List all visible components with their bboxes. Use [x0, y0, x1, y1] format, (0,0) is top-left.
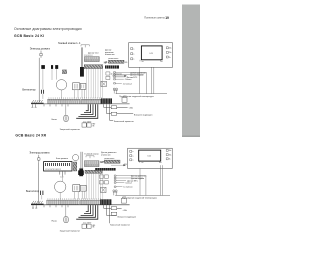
sensor pin column	[114, 175, 116, 187]
svg-text:Сигнал: Сигнал	[125, 183, 131, 185]
svg-text:Блок розжига: Блок розжига	[56, 158, 69, 160]
connector T P	[78, 170, 84, 175]
pin ticks below strip	[31, 104, 68, 107]
svg-text:7a: 7a	[169, 159, 171, 161]
small hatched box	[62, 70, 66, 74]
terminal sockets on strip	[47, 200, 79, 204]
hatched edge connector strip	[108, 60, 124, 63]
svg-text:24a: 24a	[169, 150, 172, 152]
svg-text:GCB Basic 24 Kl: GCB Basic 24 Kl	[14, 34, 44, 38]
svg-text:Электрод розжига: Электрод розжига	[30, 47, 51, 50]
box bottom stubs	[60, 172, 65, 176]
mains terminal N L	[82, 224, 86, 228]
bracket under gas valve label	[86, 156, 94, 158]
wires components to strip	[43, 69, 85, 99]
mains terminal N L	[82, 123, 86, 127]
PCB right pins	[166, 149, 168, 159]
connector b	[41, 65, 45, 69]
dark connector row	[85, 170, 102, 173]
display bottom pin marks	[140, 60, 163, 62]
display bottom pin marks	[140, 161, 162, 163]
svg-text:Сеть 230 В~: Сеть 230 В~	[83, 223, 92, 225]
fan motor M2	[73, 155, 79, 161]
transformer T1	[73, 83, 80, 90]
strip end connector	[121, 198, 126, 203]
svg-text:Пульт/датчик наружной температ: Пульт/датчик наружной температуры	[122, 197, 157, 200]
svg-text:разъем платы: разъем платы	[104, 158, 114, 160]
ignition electrode symbol	[38, 155, 40, 162]
wire row: room thermostat	[109, 205, 111, 223]
dark connector row	[84, 65, 103, 69]
svg-text:НР: НР	[104, 61, 108, 64]
svg-text:Комнатный термостат: Комнатный термостат	[114, 120, 134, 123]
svg-text:19: 19	[165, 16, 169, 20]
harness staircase	[76, 104, 98, 118]
svg-text:Внешняя индикация: Внешняя индикация	[118, 217, 136, 219]
wire row: room thermostat	[110, 104, 114, 120]
PCB left pins	[130, 150, 132, 160]
display module	[139, 150, 161, 161]
svg-text:1x Сигнал: 1x Сигнал	[123, 187, 132, 189]
svg-text:Комнатный термостат: Комнатный термостат	[110, 223, 130, 226]
ground hatch left of strip	[31, 203, 44, 205]
svg-text:отопления: отопления	[101, 154, 110, 156]
pump body	[65, 104, 67, 115]
boxed X connector	[101, 187, 106, 192]
terminal box row X2	[84, 57, 99, 62]
gas valve cable (double line)	[81, 47, 82, 67]
fuse pair left	[106, 72, 110, 80]
svg-text:ПВ: ПВ	[92, 227, 94, 229]
arrow to board	[111, 164, 126, 166]
svg-text:Внешняя индикация: Внешняя индикация	[134, 114, 152, 116]
svg-text:1 2 3: 1 2 3	[60, 177, 63, 179]
strip end connector	[122, 97, 127, 102]
svg-text:Основные диаграммы электропров: Основные диаграммы электропроводки	[14, 27, 82, 31]
main terminal strip	[31, 103, 130, 105]
dark connector block	[105, 65, 119, 68]
pump motor M3	[55, 181, 66, 192]
wire: electrode down to terminal strip	[38, 58, 40, 102]
svg-text:X20: X20	[125, 62, 128, 64]
arrow to board	[112, 75, 127, 77]
gas valve plug	[79, 168, 83, 176]
pin stubs above sockets	[48, 198, 101, 200]
svg-text:7a: 7a	[169, 57, 171, 59]
sensor wires	[115, 72, 146, 83]
svg-text:1x Сигнал: 1x Сигнал	[123, 83, 132, 85]
svg-text:Вентилятор: Вентилятор	[26, 190, 40, 193]
svg-text:Защитный термостат: Защитный термостат	[60, 229, 81, 232]
svg-text:НВО: НВО	[92, 124, 95, 126]
wire pump to strip	[52, 69, 62, 99]
svg-text:23a: 23a	[169, 52, 172, 54]
harness staircase	[76, 205, 98, 219]
wires from PCB down	[140, 68, 154, 94]
wires from PCB down	[140, 165, 162, 195]
terminal box row	[84, 161, 99, 167]
bus wire to remote control	[116, 93, 167, 95]
sensor pin column	[114, 72, 116, 84]
wire row: fuse <3A	[104, 205, 122, 208]
transformer T2	[73, 185, 80, 192]
svg-text:Газовый клапан 1- 4: Газовый клапан 1- 4	[58, 42, 81, 45]
main PCB box U2	[128, 148, 173, 168]
svg-text:Полезные советы: Полезные советы	[144, 17, 165, 20]
wire electrode to strip	[38, 162, 40, 203]
dark sockets group	[101, 98, 112, 103]
edge connector curl	[113, 190, 115, 192]
wires components to strip	[42, 191, 85, 199]
ignition box pin slots	[46, 163, 70, 166]
svg-text:GCB Basic 24 XR: GCB Basic 24 XR	[15, 133, 46, 137]
svg-text:разъем платы: разъем платы	[108, 58, 118, 60]
grey margin tab	[182, 5, 200, 138]
connector P	[55, 65, 58, 69]
PCB left pins	[131, 48, 133, 60]
ground hatch left of strip	[31, 102, 44, 104]
svg-text:Защитный термостат: Защитный термостат	[60, 128, 81, 131]
svg-text:Сеть 230 В~: Сеть 230 В~	[83, 121, 92, 123]
svg-text:1 2 3 4 5 6 7 8 9 10 11 12: 1 2 3 4 5 6 7 8 9 10 11 12	[45, 169, 61, 171]
edge connector curl	[113, 88, 115, 90]
display module	[141, 46, 162, 60]
svg-text:Насос: Насос	[52, 220, 58, 222]
svg-text:НР: НР	[100, 161, 104, 164]
pin ticks below strip	[32, 205, 68, 208]
terminal sockets on strip	[48, 99, 80, 103]
ignition box A1	[44, 162, 72, 171]
gas valve cable (double line)	[81, 152, 82, 169]
wire row: external indication	[107, 205, 117, 215]
hatched strip right of ignition box	[73, 162, 76, 171]
vertical harness band	[87, 173, 103, 199]
ignition electrode symbol	[40, 51, 42, 58]
svg-text:НВО: НВО	[92, 225, 95, 227]
boxed X connector	[101, 81, 106, 86]
capacitor C2	[41, 191, 43, 195]
bracket under gas valve label	[81, 45, 89, 48]
vertical harness band	[87, 69, 103, 99]
svg-text:23a: 23a	[169, 154, 172, 156]
svg-text:Пульт/датчик наружной температ: Пульт/датчик наружной температуры	[119, 95, 154, 98]
svg-text:Насос: Насос	[52, 119, 58, 121]
wire row: external indication	[107, 104, 134, 113]
svg-text:<3 A: <3 A	[129, 106, 134, 109]
svg-text:Газовый клапан: Газовый клапан	[85, 153, 99, 156]
pin stubs above sockets	[49, 97, 102, 99]
connector T	[51, 65, 53, 69]
dark sockets group	[100, 199, 111, 204]
svg-text:24a: 24a	[169, 48, 172, 50]
svg-text:отопления: отопления	[105, 54, 114, 56]
dark connector block	[95, 168, 115, 171]
main terminal strip	[31, 204, 130, 206]
PCB right pins	[166, 47, 168, 58]
bus wire to remote control	[115, 195, 170, 197]
wire pump to strip	[60, 176, 62, 200]
gas valve plug	[80, 67, 84, 77]
capacitor C1	[41, 90, 43, 94]
hatched edge connector strip	[104, 160, 120, 163]
svg-text:ПВ: ПВ	[92, 125, 94, 127]
fuse pair left	[99, 175, 108, 184]
svg-text:Сигнал: Сигнал	[125, 79, 131, 81]
svg-text:<3 A: <3 A	[123, 209, 128, 212]
pump body	[65, 205, 67, 216]
wire row: fuse <3A	[104, 104, 128, 107]
sensor wires	[116, 176, 146, 187]
svg-text:Электрод розжига: Электрод розжига	[29, 151, 50, 154]
main PCB box U1	[129, 43, 173, 68]
pump motor M1	[56, 80, 66, 90]
svg-text:Вентилятор: Вентилятор	[22, 89, 36, 92]
svg-text:Датчик тяги: Датчик тяги	[88, 53, 98, 55]
